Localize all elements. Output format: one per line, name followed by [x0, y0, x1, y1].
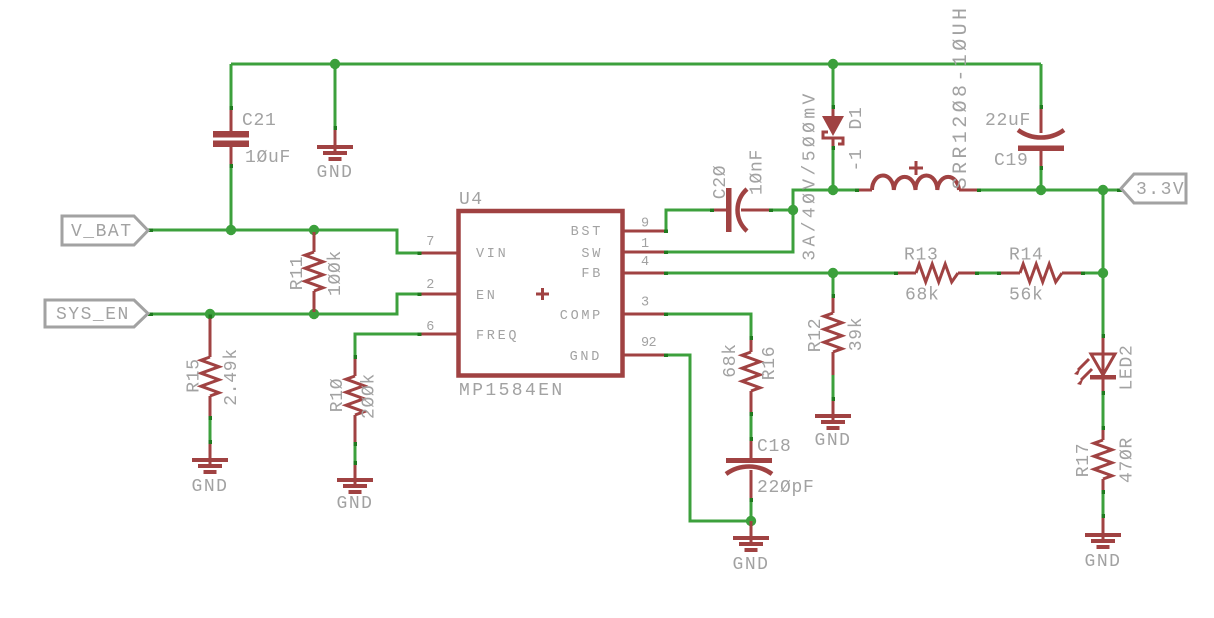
- svg-text:1ØØk: 1ØØk: [326, 250, 346, 296]
- resistor R13: [896, 246, 977, 306]
- wire LED to R17: [1102, 393, 1105, 428]
- ground GND R12: [815, 399, 852, 451]
- node rail-D1 junction: [828, 59, 838, 69]
- svg-text:BST: BST: [571, 225, 603, 240]
- node rail-GND junction: [330, 59, 340, 69]
- pin 9 BST: [623, 217, 666, 232]
- svg-text:GND: GND: [815, 431, 852, 451]
- resistor R17: [1074, 428, 1138, 492]
- svg-text:EN: EN: [476, 289, 498, 304]
- node FB-R12 junction: [828, 268, 838, 278]
- svg-text:FB: FB: [581, 267, 603, 282]
- svg-text:3.3V: 3.3V: [1136, 180, 1185, 200]
- svg-text:VIN: VIN: [476, 247, 508, 262]
- wire GND branch top: [334, 64, 337, 128]
- svg-text:SW: SW: [581, 247, 603, 262]
- svg-text:U4: U4: [459, 190, 484, 210]
- pin 9 2 GND: [623, 336, 666, 355]
- wire C19 bottom branch: [1040, 168, 1043, 190]
- svg-text:SYS_EN: SYS_EN: [56, 305, 130, 325]
- svg-text:68k: 68k: [905, 286, 940, 306]
- wire C20 node up to SW net: [793, 190, 833, 210]
- resistor R15: [185, 315, 243, 418]
- wire D1 top pin branch: [832, 64, 835, 108]
- pin 2 EN: [420, 278, 458, 294]
- svg-text:3: 3: [641, 296, 652, 311]
- node C19 output junction: [1036, 185, 1046, 195]
- svg-text:1ØnF: 1ØnF: [748, 149, 768, 195]
- wire pin connection tips: [148, 105, 1122, 518]
- svg-text:R15: R15: [185, 358, 205, 393]
- ground GND R15: [192, 442, 229, 497]
- svg-text:R12: R12: [806, 318, 826, 353]
- svg-text:C18: C18: [757, 437, 792, 457]
- svg-text:R17: R17: [1074, 443, 1094, 478]
- wire D1 bottom branch: [832, 148, 835, 190]
- wire C20 right to node: [771, 209, 793, 212]
- wire top rail net VBAT: [231, 63, 1041, 66]
- svg-text:22ØpF: 22ØpF: [757, 478, 815, 498]
- svg-text:56k: 56k: [1009, 286, 1044, 306]
- resistor R10: [328, 357, 380, 444]
- wire C21 top branch: [230, 64, 233, 110]
- svg-text:1ØuF: 1ØuF: [245, 148, 291, 168]
- wire R12 top: [832, 273, 835, 296]
- node C20 junction: [788, 205, 798, 215]
- svg-text:1: 1: [641, 237, 652, 252]
- svg-text:FREQ: FREQ: [476, 329, 519, 344]
- resistor R12: [806, 296, 867, 375]
- pin 1 SW: [623, 237, 666, 252]
- wire SYS_EN to EN: [148, 294, 420, 314]
- svg-text:C19: C19: [994, 151, 1029, 171]
- capacitor C19: [985, 107, 1064, 171]
- svg-text:GND: GND: [337, 494, 374, 514]
- ground GND R10: [337, 463, 374, 514]
- wire inductor to output: [979, 189, 1122, 192]
- wire output vertical to LED: [1102, 190, 1105, 336]
- wire R10 to GND: [354, 444, 357, 463]
- inductor L1 SRR1208-10UH: [857, 5, 979, 190]
- svg-text:R13: R13: [904, 246, 939, 266]
- svg-text:68k: 68k: [721, 343, 741, 378]
- wire GND pin to C18 node: [666, 355, 751, 521]
- ground GND C18: [733, 521, 770, 575]
- capacitor C18: [726, 437, 815, 500]
- svg-text:3A/4ØV/5ØØmV: 3A/4ØV/5ØØmV: [801, 90, 821, 260]
- wire FB to divider: [666, 272, 896, 275]
- svg-text:C21: C21: [242, 111, 277, 131]
- wire C19 top branch: [1040, 64, 1043, 107]
- svg-text:R14: R14: [1009, 246, 1044, 266]
- svg-text:2: 2: [649, 336, 660, 351]
- svg-text:4: 4: [641, 255, 652, 270]
- svg-text:R11: R11: [288, 256, 308, 291]
- op-amp U4 MP1584EN: [459, 190, 623, 401]
- svg-text:V_BAT: V_BAT: [71, 222, 133, 242]
- wire COMP to R16: [666, 314, 751, 338]
- resistor R16: [721, 338, 780, 414]
- svg-text:2.49k: 2.49k: [222, 348, 242, 406]
- svg-text:9: 9: [641, 217, 652, 232]
- wire C18 bottom: [750, 500, 753, 521]
- node SYS_EN-R15 junction: [205, 309, 215, 319]
- node V_BAT label: [62, 216, 148, 245]
- diode D1 schottky: [801, 90, 868, 260]
- svg-text:2: 2: [426, 278, 437, 293]
- node 3.3V label: [1121, 174, 1186, 203]
- node R14-output junction: [1098, 268, 1108, 278]
- ground GND LED: [1085, 516, 1122, 572]
- node V_BAT-C21 junction: [226, 225, 236, 235]
- svg-text:GND: GND: [192, 477, 229, 497]
- svg-text:LED2: LED2: [1118, 344, 1138, 390]
- wire C21 bottom branch: [230, 165, 233, 230]
- node SYS_EN-R11 junction: [309, 309, 319, 319]
- wire SW to C20 node: [666, 210, 793, 252]
- node C18-GND junction: [746, 516, 756, 526]
- wire R12 bottom to GND: [832, 375, 835, 399]
- svg-text:MP1584EN: MP1584EN: [459, 381, 565, 401]
- svg-text:22uF: 22uF: [985, 111, 1031, 131]
- ground GND top: [317, 128, 354, 183]
- wire R14 to output vertical: [1083, 272, 1103, 275]
- pin 7 VIN: [420, 235, 458, 253]
- svg-text:GND: GND: [1085, 552, 1122, 572]
- wire BST to C20: [666, 210, 712, 231]
- capacitor C21: [213, 108, 291, 168]
- pin 4 FB: [623, 255, 666, 273]
- node SW-inductor junction: [828, 185, 838, 195]
- resistor R11: [288, 232, 346, 312]
- wire R16 to C18: [750, 414, 753, 439]
- svg-text:R16: R16: [760, 346, 780, 381]
- wire FREQ to R10: [355, 334, 420, 357]
- svg-text:47ØR: 47ØR: [1118, 437, 1138, 483]
- svg-text:2ØØk: 2ØØk: [360, 373, 380, 419]
- svg-text:7: 7: [426, 235, 437, 250]
- svg-text:GND: GND: [733, 555, 770, 575]
- svg-text:C2Ø: C2Ø: [711, 165, 731, 200]
- wire node to inductor: [833, 189, 857, 192]
- svg-text:GND: GND: [317, 163, 354, 183]
- svg-text:6: 6: [426, 320, 437, 335]
- wire V_BAT to VIN: [148, 230, 420, 253]
- svg-text:D1: D1: [847, 106, 867, 129]
- pin 6 FREQ: [420, 320, 458, 335]
- capacitor C20: [711, 149, 771, 232]
- LED2: [1074, 336, 1138, 393]
- node V_BAT-R11 junction: [309, 225, 319, 235]
- wire R17 to GND: [1102, 492, 1105, 516]
- svg-text:GND: GND: [570, 350, 602, 365]
- pin 3 COMP: [623, 296, 666, 315]
- wire R13 to R14: [977, 272, 999, 275]
- svg-text:SRR12Ø8-1ØUH: SRR12Ø8-1ØUH: [950, 5, 973, 190]
- node SYS_EN label: [45, 300, 148, 327]
- svg-text:COMP: COMP: [560, 309, 603, 324]
- svg-text:R1Ø: R1Ø: [328, 378, 348, 413]
- svg-text:-1: -1: [847, 148, 867, 171]
- svg-text:39k: 39k: [847, 317, 867, 352]
- wire R15 to GND: [209, 418, 212, 442]
- resistor R14: [999, 246, 1083, 306]
- node output-3.3V junction: [1098, 185, 1108, 195]
